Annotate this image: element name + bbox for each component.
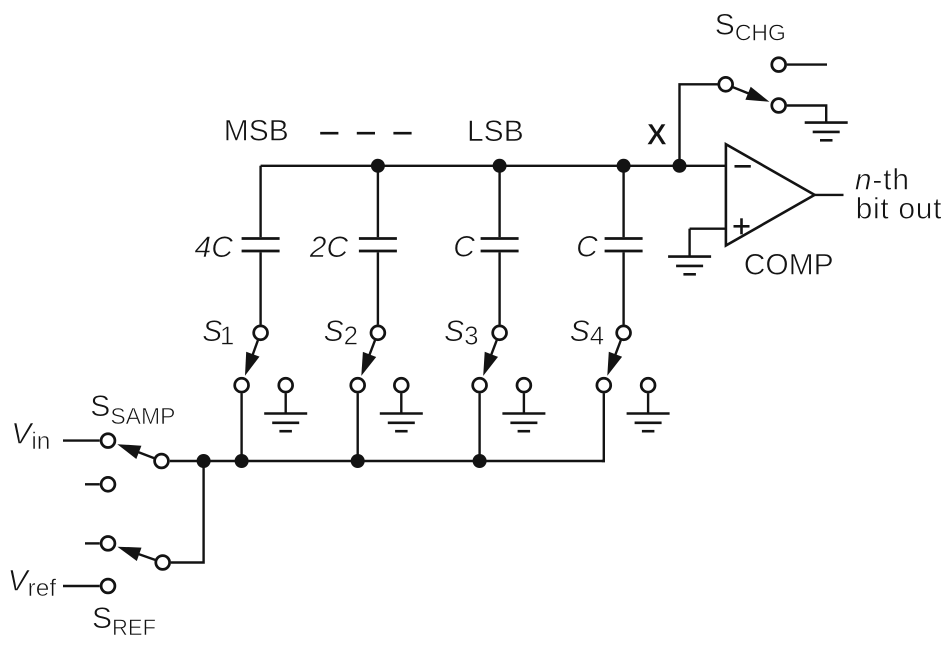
svg-text:S3: S3	[444, 315, 478, 351]
svg-text:Vin: Vin	[11, 418, 50, 455]
svg-text:S1: S1	[202, 315, 234, 351]
svg-text:SCHG: SCHG	[715, 9, 786, 46]
svg-text:LSB: LSB	[467, 115, 524, 148]
svg-text:S4: S4	[570, 315, 604, 351]
svg-text:MSB: MSB	[224, 114, 289, 147]
svg-text:COMP: COMP	[744, 249, 834, 282]
svg-text:SREF: SREF	[92, 602, 156, 640]
svg-text:X: X	[647, 119, 667, 152]
svg-text:2C: 2C	[309, 231, 349, 264]
svg-text:S2: S2	[324, 315, 358, 351]
svg-text:bit out: bit out	[856, 192, 943, 225]
svg-text:C: C	[576, 231, 598, 264]
svg-text:4C: 4C	[195, 231, 234, 264]
svg-text:Vref: Vref	[8, 565, 57, 602]
svg-text:SSAMP: SSAMP	[90, 390, 175, 429]
svg-text:C: C	[453, 231, 475, 264]
